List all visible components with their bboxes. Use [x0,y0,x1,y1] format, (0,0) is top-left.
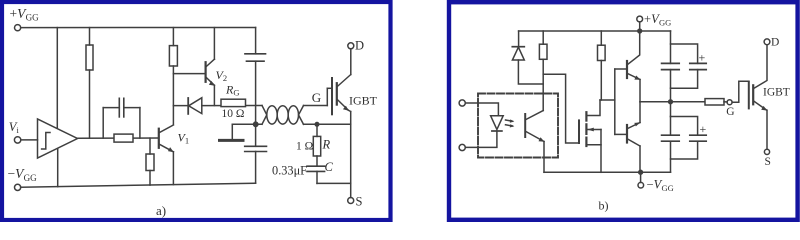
svg-text:G: G [312,90,321,105]
totem base riser [614,69,616,134]
wire caps mid drop [670,88,672,116]
node +VGG terminal (panel b) [637,16,643,22]
svg-text:+: + [699,51,706,65]
twisted pair wire A [262,106,304,125]
wire return to emitter line [304,123,351,125]
optocoupler dashed box [478,94,558,158]
IGBT collector stroke (panel b) [754,45,767,89]
node -VGG terminal (panel a) [15,184,21,190]
wire op-amp output line [78,137,115,139]
wire output node to gate resistor [640,101,705,103]
svg-text:IGBT: IGBT [349,93,378,107]
wire RC bottom to emitter line [317,182,351,184]
zener diode VS triangle [512,47,524,60]
resistor R 1ohm [316,124,318,136]
capacitor feedback loop left leg [102,108,104,139]
svg-text:D: D [771,37,779,49]
svg-text:a): a) [156,203,166,218]
node junction dot caps mid node [669,100,673,104]
LED cathode bar [492,130,502,132]
wire Vi input to op-amp [21,139,38,141]
svg-text:b): b) [599,199,609,213]
node junction RC branch [315,123,319,127]
wire cap loop top left [103,107,119,109]
wire op-amp positive supply [56,28,58,129]
node -VGG terminal (panel b) [640,172,642,182]
resistor R1 pull-up on comparator output [89,28,91,45]
node input terminal 1 [459,100,465,106]
wire V2 base line [173,73,205,75]
node input terminal 2 [459,144,465,150]
resistor R1b from rail [542,31,544,44]
panel a frame [2,2,391,220]
IGBT channel bar (panel b) [752,85,754,104]
transistor V2 emitter with arrow [206,78,214,86]
wire gate resistor to circle [724,101,727,103]
resistor series in output line [114,134,133,142]
wire input 1 to LED [465,103,498,116]
wire upper caps bottom join [671,70,698,89]
panel b frame [449,2,798,220]
wire cap loop top right [124,107,140,109]
zener bottom lead to collector node [518,60,543,84]
svg-text:10 Ω: 10 Ω [222,108,245,120]
MOSFET channel bar segments [585,112,587,120]
node junction dot cap chain on return [254,122,258,126]
node D terminal (panel a) [348,43,354,49]
wire diode to RG [202,105,262,107]
svg-text:IGBT: IGBT [763,87,790,99]
resistor bias to -VGG [149,138,151,154]
wire bottom rail (panel b) [544,171,671,173]
phototransistor base bar [524,114,526,137]
capacitor C1 decoupling upper [255,28,257,54]
transistor V1 emitter with arrow [160,144,174,152]
wire top rail (panel a) [21,27,256,29]
diode VD triangle [189,98,202,114]
wire collector node to MOSFET gate [543,74,579,143]
svg-text:C: C [325,160,334,174]
IGBT collector stroke (panel a) [337,75,351,87]
capacitor C feedback plates [118,98,120,117]
node junction dot +VGG on rail [638,29,642,33]
IGBT emitter stroke with arrow (panel a) [337,100,348,111]
twisted pair wire B [262,106,304,125]
node D terminal (panel b) [764,39,770,45]
transistor bottom PNP collector [628,139,640,146]
MOSFET source stub and drop to rail [586,144,601,146]
wire LED to input terminal 2 [465,131,497,147]
IGBT channel bar (panel a) [336,83,338,104]
transistor top NPN collector [628,31,640,65]
node S terminal (panel a) [348,198,354,204]
node gate terminal circle [727,100,732,105]
phototransistor emitter with arrow [526,132,544,142]
zener diode VS lead [518,31,520,47]
transistor V2 collector [206,59,214,66]
wire op-amp negative supply [57,148,59,186]
transistor top NPN emitter with arrow [628,74,640,80]
svg-text:0.33μF: 0.33μF [272,163,307,177]
node junction dot -VGG on rail [639,170,643,174]
ground symbol [231,124,233,139]
wire return lower line [232,123,262,125]
wire top rail (panel b) [519,30,671,32]
capacitor CL-left plates [662,134,680,136]
wire bottom rail (panel a) [21,183,256,187]
svg-text:+: + [700,122,707,136]
resistor RG box [221,99,246,106]
wire caps to bottom rail [670,159,672,172]
transistor bottom PNP emitter with arrow [628,123,640,129]
svg-text:G: G [726,106,734,118]
svg-text:D: D [355,38,364,52]
capacitor CL-right plates [690,134,706,136]
IGBT emitter stroke with arrow (panel b) [754,101,767,110]
resistor gate RGb box [705,99,724,105]
capacitor C2 decoupling lower [245,145,267,147]
svg-text:S: S [356,195,363,209]
node +VGG terminal (panel a) [15,25,21,31]
node Vi input terminal [14,137,20,143]
transistor V1 base bar [158,129,160,148]
diode VD cathode bar [187,98,189,114]
light arrow 2 [506,125,513,126]
MOSFET body stub with arrow [586,129,601,131]
phototransistor collector [526,111,543,120]
IGBT gate bar (panel b) [748,82,750,109]
capacitor C 0.33uF plates [307,165,325,167]
wire V1 collector node to diode [173,105,188,107]
capacitor CU-left plates [662,62,680,64]
transistor bottom PNP base stub and bar [615,133,627,135]
light arrow 1 [506,120,513,121]
node S terminal (panel b) [764,149,769,154]
transistor V1 collector [160,125,174,133]
wire lower caps bottom join [671,141,698,159]
wire gate line to IGBT [304,105,328,107]
wire gate lead up to IGBT [732,81,749,102]
zener diode VS cathode bar [512,46,524,48]
resistor R2 collector load [172,28,174,46]
capacitor CU-right plates [690,62,706,64]
MOSFET drain stub [586,100,600,116]
MOSFET gate bar [578,120,580,143]
svg-text:S: S [765,156,771,168]
transistor V2 base bar [205,62,207,82]
capacitor bank upper tee [671,31,698,63]
capacitor feedback loop right leg [139,108,141,139]
op-amp U1 comparator triangle [38,119,78,158]
capacitor bank lower tee [671,117,698,136]
LED triangle [491,116,504,130]
transistor top NPN base stub and bar [615,68,627,70]
IGBT gate bar (panel a) [331,78,333,114]
svg-text:R: R [322,138,331,152]
hysteresis symbol inside op-amp [42,133,50,150]
resistor R2b from rail [600,31,602,45]
wire to totem base riser [600,99,615,101]
svg-text:1 Ω: 1 Ω [296,140,313,152]
